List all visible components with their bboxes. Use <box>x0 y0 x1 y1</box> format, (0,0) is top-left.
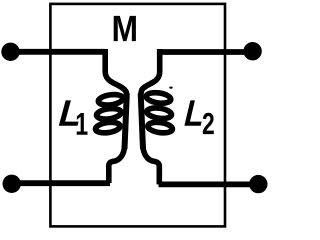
stray ink mark (scan artifact) <box>169 87 172 89</box>
wire top-left horizontal <box>11 49 106 55</box>
node dot terminal 3 (top-right) <box>243 42 261 60</box>
enclosure box <box>50 4 225 227</box>
node dot terminal 2 (bottom-left) <box>3 175 21 193</box>
L2 coil turn 2 <box>146 107 172 120</box>
inductor L2 <box>141 49 173 184</box>
L1 winding connector bar <box>125 94 127 150</box>
L2 coil turn 1 <box>146 91 172 104</box>
L1 coil turn 3 <box>95 121 121 134</box>
L2 winding connector bar <box>141 94 143 150</box>
L2 lead-out to bottom wire <box>143 146 159 184</box>
L1 coil turn 1 <box>98 93 124 106</box>
label L1 <box>59 100 88 134</box>
wire bottom-left horizontal <box>12 180 110 186</box>
label M (mutual inductance) <box>114 16 136 41</box>
wire top-right horizontal <box>160 49 253 55</box>
node dot terminal 1 (top-left) <box>1 43 19 61</box>
node dot terminal 4 (bottom-right) <box>249 175 267 193</box>
L1 lead-in from top wire <box>105 49 127 96</box>
wire bottom-right horizontal <box>159 181 259 187</box>
label L2 <box>184 100 213 134</box>
L2 lead-in from top wire <box>141 49 160 96</box>
inductor L1 <box>95 49 127 183</box>
L1 coil turn 2 <box>96 107 122 120</box>
L2 coil turn 3 <box>147 121 173 134</box>
L1 lead-out to bottom wire <box>109 146 125 183</box>
